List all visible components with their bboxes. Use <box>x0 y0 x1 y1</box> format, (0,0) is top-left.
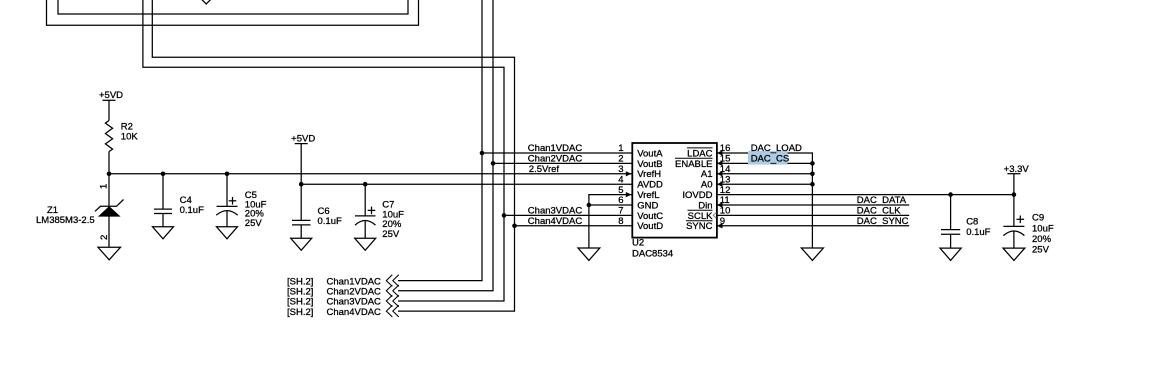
node pin7/trunk3 <box>502 213 507 218</box>
connector chevron row3 <box>386 295 392 307</box>
svg-text:7: 7 <box>618 206 623 217</box>
svg-text:+3.3V: +3.3V <box>1004 164 1030 175</box>
wire Chan4VDAC trunk (from top via y=57.3) <box>152 0 514 311</box>
zener Z1 cathode bar <box>95 200 124 212</box>
wire Chan3VDAC trunk (from top via y=67.3) <box>143 0 504 301</box>
node C7 <box>363 182 368 187</box>
connector chevron row1 <box>386 275 392 287</box>
svg-text:DAC_CLK: DAC_CLK <box>857 205 901 216</box>
node ENABLE/gnd trunk <box>810 161 815 166</box>
capacitor C7 plus plate <box>355 215 376 217</box>
wire staple B (off-page, top-left outer) <box>47 0 419 25</box>
wire +5VD to R2 <box>108 100 110 120</box>
wire +3.3V stub <box>1013 174 1015 195</box>
wire 2.5Vref rail <box>109 173 632 175</box>
pin 14 A1 arrow <box>717 171 723 176</box>
wire pin11 Din DAC_DATA <box>717 204 909 206</box>
svg-text:C9: C9 <box>1032 212 1044 223</box>
junction dots <box>107 151 1017 228</box>
svg-text:Chan1VDAC: Chan1VDAC <box>528 143 583 154</box>
power +3.3V bar <box>1007 173 1020 175</box>
svg-text:13: 13 <box>720 174 731 185</box>
capacitor C8 plates <box>941 229 960 231</box>
pin 3 VrefH arrow <box>626 171 632 176</box>
svg-text:3: 3 <box>618 164 623 175</box>
node pin1/trunk1 <box>480 151 485 156</box>
svg-text:8: 8 <box>618 216 623 227</box>
off-page diode tip (diamond bottom) <box>201 0 212 4</box>
wire Chan2VDAC trunk (vertical x=493) <box>398 0 493 291</box>
ground (Z1) <box>98 247 121 259</box>
wire C5 tap <box>226 174 228 207</box>
wire pin9 SYNC DAC_SYNC <box>717 225 909 227</box>
highlight DAC_CS <box>748 151 788 165</box>
wire C8 to ground <box>950 234 952 248</box>
svg-text:0.1uF: 0.1uF <box>966 227 990 238</box>
svg-text:1: 1 <box>99 184 110 189</box>
svg-text:2: 2 <box>618 154 623 165</box>
node R2/Z1/rail <box>107 172 112 177</box>
pin 11 Din arrow <box>717 202 723 207</box>
svg-text:14: 14 <box>720 164 731 175</box>
svg-text:10: 10 <box>720 206 731 217</box>
svg-text:0.1uF: 0.1uF <box>180 205 204 216</box>
pin 5 VrefL arrow <box>626 192 632 197</box>
resistor R2 zigzag <box>105 121 112 152</box>
svg-text:SCLK: SCLK <box>688 211 713 222</box>
svg-text:15: 15 <box>720 154 731 165</box>
node C9/+3.3V <box>1012 192 1017 197</box>
capacitor C5 plus sign <box>229 200 237 202</box>
svg-text:16: 16 <box>720 143 731 154</box>
svg-text:2: 2 <box>99 235 110 240</box>
svg-text:Din: Din <box>698 200 712 211</box>
capacitor C7 plus sign <box>368 209 376 211</box>
svg-text:VoutA: VoutA <box>637 148 663 159</box>
svg-text:[SH.2]: [SH.2] <box>287 307 313 318</box>
svg-text:10uF: 10uF <box>1032 224 1054 235</box>
svg-text:2.5Vref: 2.5Vref <box>529 164 560 175</box>
wire C6 tap <box>300 184 302 220</box>
svg-text:9: 9 <box>720 216 725 227</box>
svg-text:VoutD: VoutD <box>637 221 663 232</box>
svg-text:A0: A0 <box>701 180 713 191</box>
svg-text:LDAC: LDAC <box>687 148 712 159</box>
ground (LDAC/ENABLE/A1/A0) <box>801 248 823 260</box>
capacitor C5 plus plate <box>217 205 238 207</box>
svg-text:GND: GND <box>637 200 658 211</box>
svg-text:25V: 25V <box>382 229 400 240</box>
wire pin1 VoutA <box>482 152 632 154</box>
wire pin6 GND <box>589 204 632 206</box>
svg-text:+5VD: +5VD <box>99 90 123 101</box>
wire C7 tap <box>364 184 366 216</box>
pin 10 SCLK open arrow <box>713 213 716 218</box>
svg-text:4: 4 <box>618 174 623 185</box>
wire C4 tap <box>162 174 164 209</box>
svg-text:DAC8534: DAC8534 <box>632 248 673 259</box>
svg-text:1: 1 <box>618 143 623 154</box>
wire pin12 IOVDD to +3.3V <box>717 194 1014 196</box>
capacitor C7 curved plate <box>355 221 376 226</box>
svg-text:DAC_LOAD: DAC_LOAD <box>751 143 802 154</box>
wire pin8 VoutD <box>515 225 632 227</box>
svg-text:12: 12 <box>720 185 731 196</box>
svg-text:25V: 25V <box>1032 244 1050 255</box>
op U2 DAC8534 body <box>632 143 717 238</box>
connector chevron row4 <box>386 305 392 317</box>
ground (C6) <box>291 238 312 250</box>
wire C5 to ground <box>226 211 228 227</box>
node C8 <box>948 192 953 197</box>
wire pin14 A1 <box>717 173 813 175</box>
node C5 <box>225 172 230 177</box>
power +5VD (left) bar <box>103 99 116 101</box>
node A0/gnd trunk <box>810 182 815 187</box>
capacitor C9 curved plate <box>1003 231 1024 236</box>
wire AVDD rail <box>301 183 631 185</box>
node A1/gnd trunk <box>810 172 815 177</box>
svg-text:A1: A1 <box>701 169 713 180</box>
svg-text:AVDD: AVDD <box>637 180 663 191</box>
svg-text:Chan4VDAC: Chan4VDAC <box>327 307 382 318</box>
wire pin7 VoutC <box>504 214 632 216</box>
ground (U2 VrefL/GND) <box>578 248 600 260</box>
wire pin10 SCLK DAC_CLK <box>717 214 909 216</box>
wire pin13 A0 <box>717 183 813 185</box>
wire C6 to ground <box>300 225 302 238</box>
wire C8 tap <box>950 195 952 230</box>
connector chevron row2 <box>386 285 392 297</box>
svg-text:LM385M3-2.5: LM385M3-2.5 <box>36 215 95 226</box>
wire pin5 VrefL <box>589 195 632 205</box>
overline LDAC <box>687 147 713 149</box>
overlines <box>675 148 713 221</box>
svg-text:VoutB: VoutB <box>637 159 662 170</box>
wire staple A (off-page, top-left inner) <box>58 0 408 14</box>
wire C7 to ground <box>364 221 366 239</box>
svg-text:DAC_DATA: DAC_DATA <box>857 195 907 206</box>
svg-text:C8: C8 <box>966 216 978 227</box>
wire Z1 to ground <box>108 216 110 247</box>
svg-text:DAC_SYNC: DAC_SYNC <box>857 216 909 227</box>
svg-text:11: 11 <box>720 195 730 206</box>
wire C4 to ground <box>162 214 164 227</box>
svg-text:Chan2VDAC: Chan2VDAC <box>528 153 583 164</box>
svg-text:+5VD: +5VD <box>291 133 315 144</box>
power +5VD (middle) bar <box>295 143 308 145</box>
svg-text:Chan3VDAC: Chan3VDAC <box>528 205 583 216</box>
ground (C8) <box>940 248 961 260</box>
svg-text:DAC_CS: DAC_CS <box>751 153 790 164</box>
wire C9 to ground <box>1013 231 1015 248</box>
node VrefL/GND <box>587 203 592 208</box>
ground (C7) <box>355 238 376 250</box>
overline ENABLE <box>675 157 713 159</box>
wire pin16 LDAC to ground trunk <box>717 153 813 248</box>
ground (C5) <box>217 227 238 239</box>
svg-text:25V: 25V <box>245 218 263 229</box>
wire C9 tap <box>1013 195 1015 227</box>
node pin8/trunk4 <box>512 224 517 229</box>
svg-text:0.1uF: 0.1uF <box>318 216 342 227</box>
svg-text:ENABLE: ENABLE <box>675 159 713 170</box>
node C4 <box>161 172 166 177</box>
wire pin15 ENABLE <box>717 162 813 164</box>
ground (C4) <box>153 227 174 239</box>
node +5VD/C6/rail2 <box>299 182 304 187</box>
wire rail to Z1 <box>108 174 110 207</box>
pin 13 A0 arrow <box>717 182 723 187</box>
overline SCLK <box>688 209 713 211</box>
wire GND junction to ground <box>588 205 590 248</box>
ground (C9) <box>1003 248 1025 260</box>
capacitor C5 curved plate <box>216 211 238 216</box>
capacitor C4 plates <box>154 208 172 210</box>
wire Chan1VDAC trunk (vertical x=482 from top to connector row1) <box>398 0 482 281</box>
wire R2 to 2.5Vref rail <box>108 152 110 174</box>
wire +5VD to AVDD rail <box>300 144 302 185</box>
svg-text:SYNC: SYNC <box>686 221 713 232</box>
zener Z1 triangle <box>100 207 120 216</box>
svg-text:Chan4VDAC: Chan4VDAC <box>528 216 583 227</box>
capacitor C6 plates <box>292 219 311 221</box>
pin 16 LDAC arrow <box>717 150 723 155</box>
svg-text:VrefH: VrefH <box>637 169 661 180</box>
svg-text:U2: U2 <box>632 238 644 249</box>
capacitor C9 plus sign <box>1017 218 1025 220</box>
svg-text:VoutC: VoutC <box>637 211 663 222</box>
node pin2/trunk2 <box>491 161 496 166</box>
pin 9 SYNC arrow <box>717 223 723 228</box>
pin 15 ENABLE arrow <box>717 161 723 166</box>
svg-text:IOVDD: IOVDD <box>682 190 712 201</box>
capacitor C9 plus plate <box>1003 225 1024 227</box>
svg-text:10K: 10K <box>121 131 139 142</box>
svg-text:VrefL: VrefL <box>637 190 659 201</box>
svg-text:6: 6 <box>618 195 623 206</box>
wire pin2 VoutB <box>493 162 632 164</box>
pin arrowheads <box>626 150 723 228</box>
overline SYNC <box>686 220 713 222</box>
svg-text:5: 5 <box>618 185 623 196</box>
